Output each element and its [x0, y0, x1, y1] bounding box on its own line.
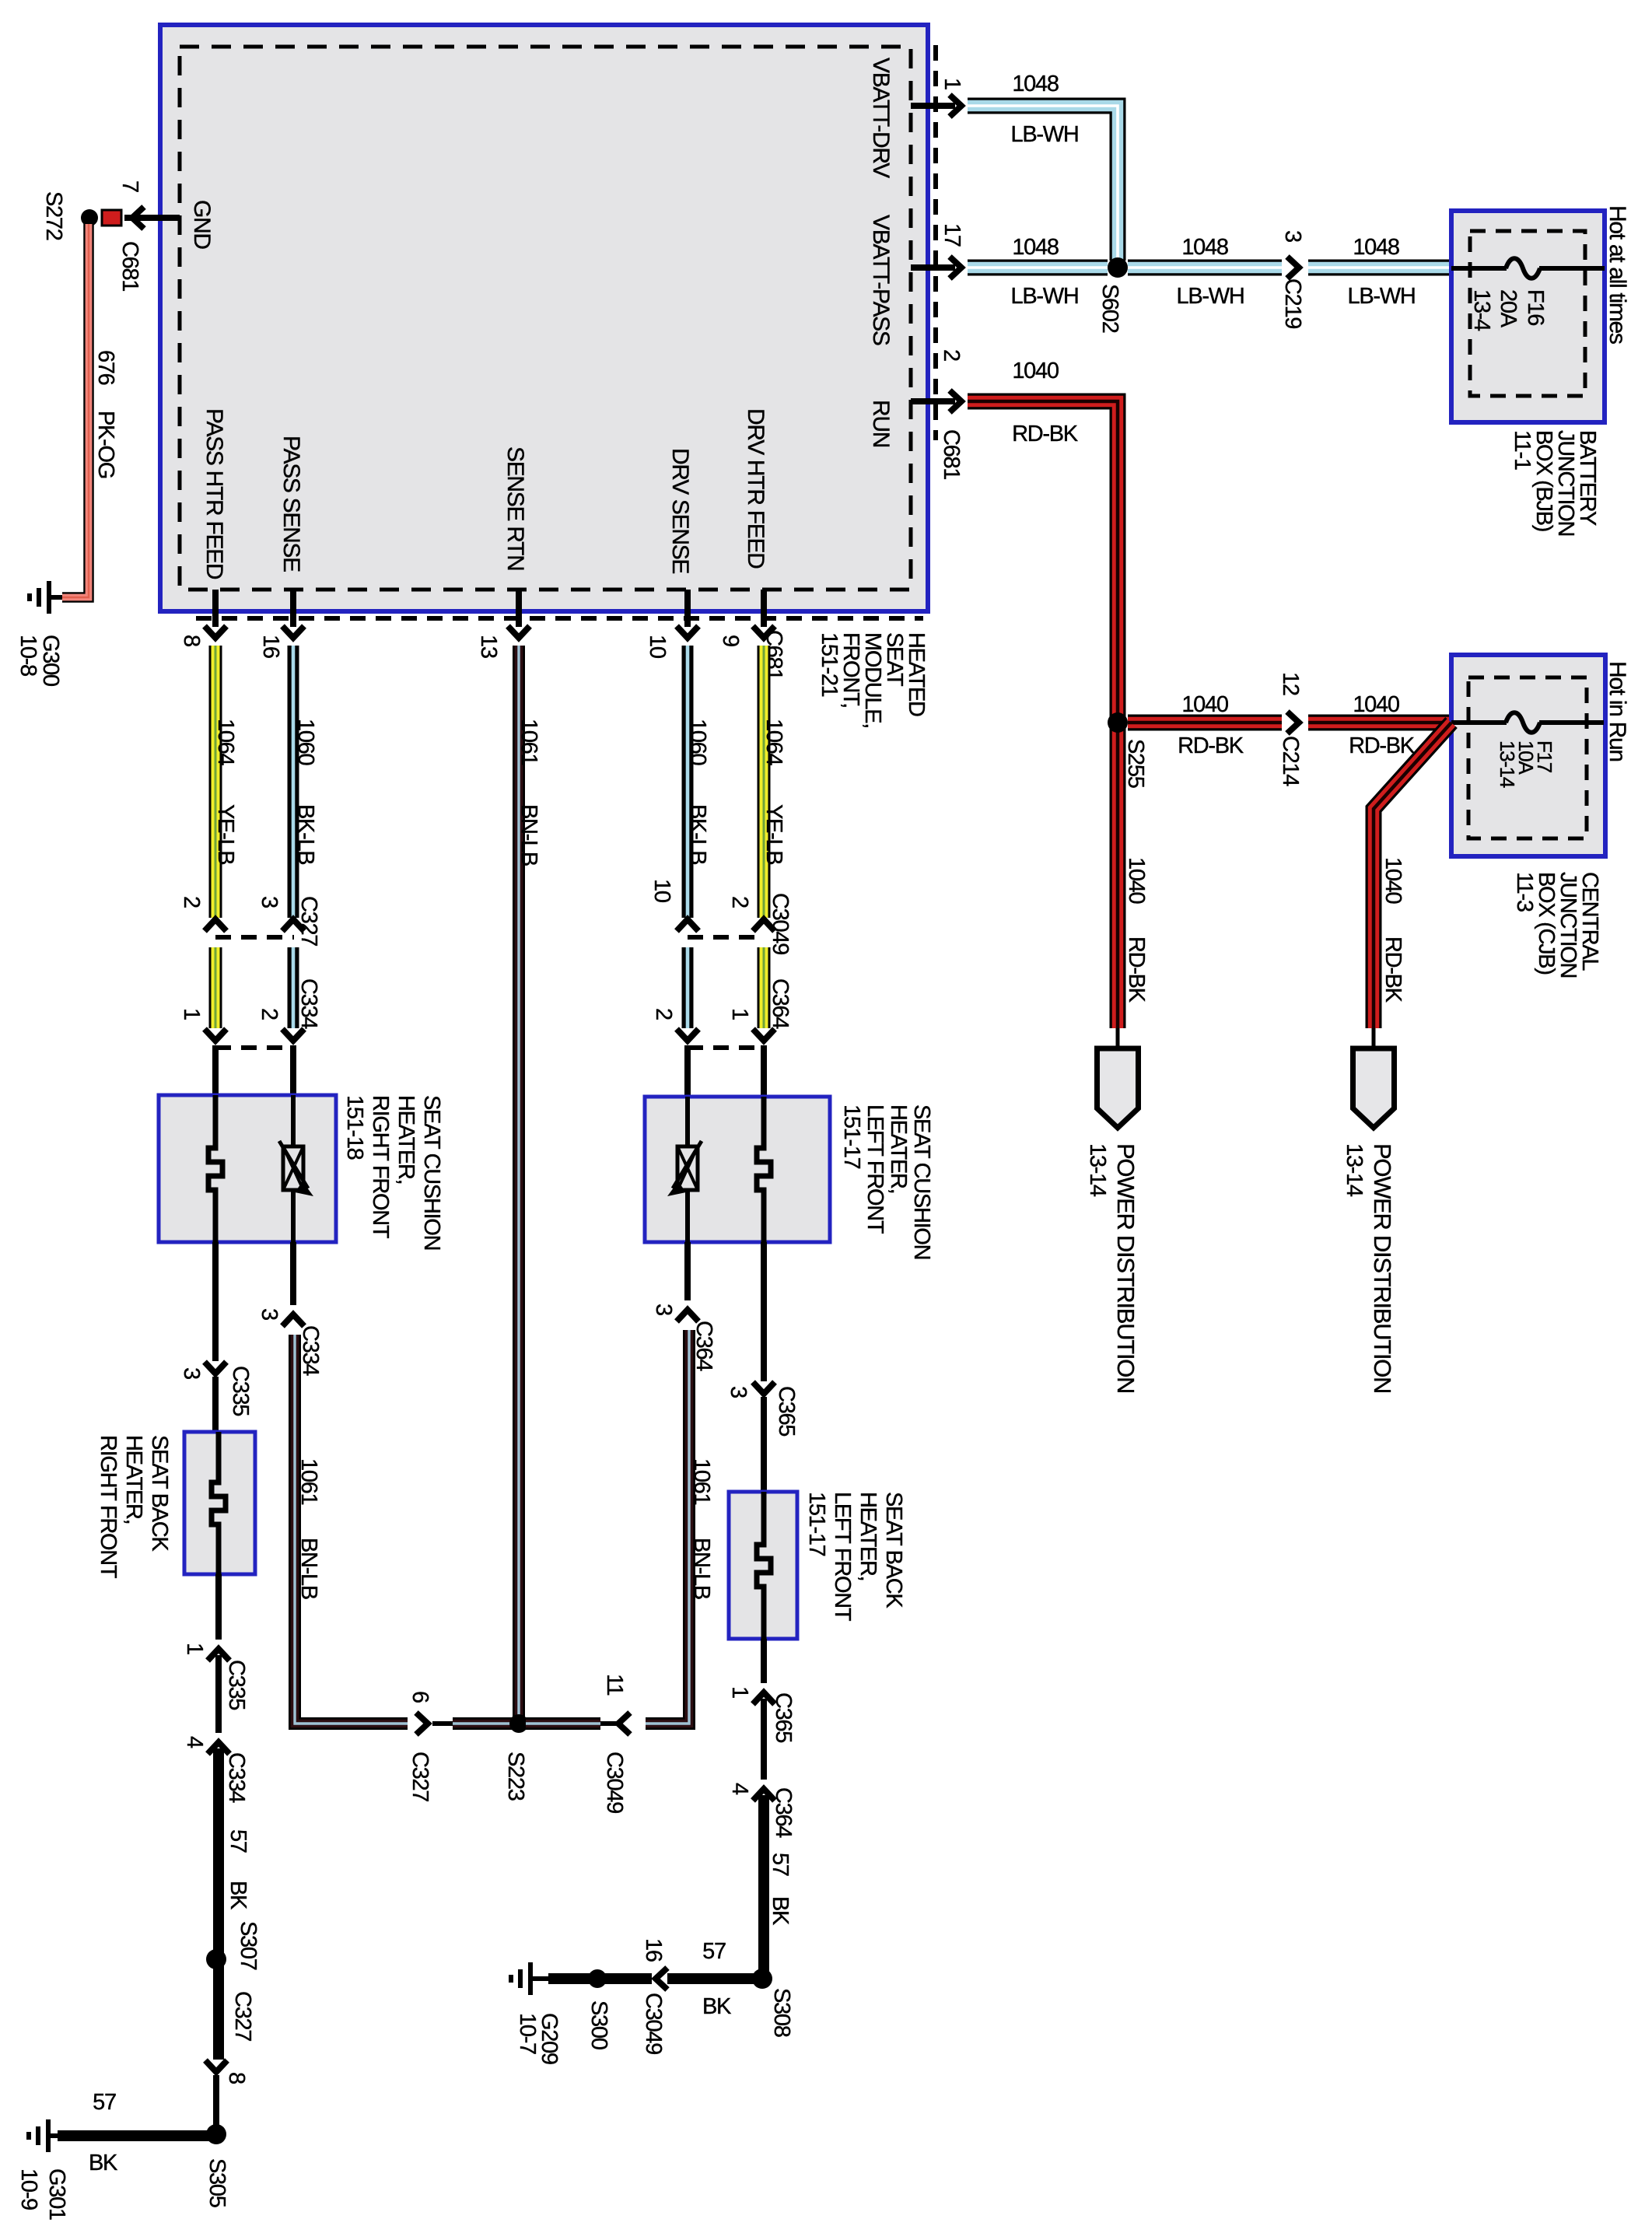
power distribution arrow 1 [1097, 1048, 1139, 1128]
svg-text:16: 16 [258, 635, 283, 658]
heated seat module inner dashed boundary [180, 47, 911, 590]
wire to seat cushion heater RF sensor [290, 1045, 296, 1097]
svg-text:C3049: C3049 [641, 1993, 666, 2054]
connector C327 arrow (pin8) [205, 2060, 227, 2072]
svg-text:LEFT FRONT: LEFT FRONT [863, 1104, 887, 1234]
wire 1048 LB-WH (seg2) [1128, 260, 1282, 276]
svg-text:2: 2 [257, 1008, 282, 1020]
wire C327-6 to S223 [432, 1721, 453, 1726]
central junction box body [1451, 655, 1605, 856]
svg-text:RD-BK: RD-BK [1012, 422, 1079, 446]
svg-text:57: 57 [226, 1829, 250, 1853]
svg-text:C335: C335 [228, 1366, 253, 1416]
seat cushion heater LF element wire [757, 1097, 771, 1242]
splice S307 [206, 1949, 226, 1969]
wire 57 BK (C3049 to G209) [548, 1973, 652, 1984]
wire to power distribution 1 tail [1116, 1028, 1120, 1050]
wire to seat cushion heater RF [212, 1045, 219, 1097]
connector C327 arrow (pin6) [416, 1713, 428, 1734]
svg-text:3: 3 [179, 1367, 204, 1379]
svg-text:1048: 1048 [1353, 235, 1398, 260]
wire heater RF sensor to C334 [290, 1242, 296, 1305]
power distribution arrow 2 [1353, 1048, 1395, 1128]
wire 1061 BN-LB (pass sense) [295, 1335, 408, 1724]
svg-text:BN-LB: BN-LB [296, 1538, 321, 1599]
svg-text:1: 1 [727, 1008, 752, 1020]
svg-text:PASS HTR FEED: PASS HTR FEED [201, 408, 227, 579]
svg-text:C365: C365 [774, 1386, 799, 1436]
wire 1060 BK-LB (drv sense seg1) [682, 646, 694, 918]
connector C334 arrow (w1) [205, 1029, 226, 1041]
connector C327 arrow (w2) [282, 919, 304, 931]
svg-text:S308: S308 [769, 1988, 794, 2037]
wire 1060 BK-LB (pass sense seg2) [288, 947, 299, 1028]
svg-text:1040: 1040 [1012, 359, 1058, 383]
svg-text:3: 3 [726, 1386, 751, 1398]
wire 1060 BK-LB (drv sense seg2) [682, 947, 694, 1028]
connector C681 dashed line (right pins) [933, 45, 938, 440]
svg-text:1061: 1061 [296, 1458, 321, 1504]
svg-text:SEAT CUSHION: SEAT CUSHION [419, 1095, 444, 1250]
wire 57 BK (S308 to C3049) [667, 1973, 758, 1984]
svg-text:G301: G301 [44, 2168, 69, 2220]
wire 1061 BN-LB (drv sense) [646, 1330, 689, 1724]
svg-text:3: 3 [257, 1308, 282, 1320]
pin 16 stub wire [290, 590, 296, 627]
fuse F16 wire [1451, 266, 1507, 271]
svg-text:57: 57 [702, 1939, 726, 1964]
svg-text:DRV HTR FEED: DRV HTR FEED [743, 408, 768, 569]
svg-text:S307: S307 [236, 1921, 261, 1970]
seat cushion heater LF sensor wire [685, 1097, 690, 1146]
connector C681 dashed line (bottom pins) [196, 616, 923, 621]
connector C364 arrow (w4) [677, 1029, 698, 1041]
svg-text:8: 8 [179, 635, 204, 646]
svg-text:SENSE RTN: SENSE RTN [502, 446, 528, 570]
svg-text:11-1: 11-1 [1510, 430, 1535, 470]
svg-text:2: 2 [727, 896, 752, 908]
svg-text:1: 1 [727, 1686, 752, 1698]
wire 1048 LB-WH (seg3) [1308, 260, 1451, 276]
splice S305 [206, 2124, 226, 2144]
connector C3049 dashed line [688, 935, 764, 940]
wire seat back heater RF down [215, 1574, 222, 1640]
wire heater LF to C365 [761, 1242, 767, 1381]
connector C219 arrow [1287, 257, 1299, 278]
wire 1064 YE-LB (drv feed seg2) [758, 947, 771, 1028]
wire 1060 BK-LB (pass sense seg1) [288, 646, 299, 918]
pin 8 stub wire [212, 590, 219, 627]
seat cushion heater LF sensor [677, 1146, 698, 1190]
svg-text:11-3: 11-3 [1512, 872, 1537, 912]
wire to seat cushion heater LF sensor [684, 1045, 691, 1098]
pin 2 connector arrow [950, 390, 961, 412]
svg-text:1040: 1040 [1353, 692, 1398, 717]
svg-text:10: 10 [649, 879, 674, 902]
svg-text:YE-LB: YE-LB [213, 804, 238, 864]
connector C334 arrow (pin4) [208, 1742, 229, 1754]
battery junction box body [1451, 211, 1605, 422]
pin 10 connector arrow [677, 626, 698, 638]
svg-text:13-4: 13-4 [1469, 289, 1494, 331]
svg-text:13-14: 13-14 [1085, 1143, 1110, 1197]
wire C365 to C364 [761, 1699, 767, 1780]
svg-text:HEATER,: HEATER, [394, 1095, 418, 1184]
svg-text:C335: C335 [224, 1660, 249, 1710]
svg-text:BN-LB: BN-LB [689, 1538, 714, 1599]
svg-text:G300: G300 [38, 635, 63, 686]
pin 10 stub wire [684, 590, 691, 627]
wire C3049-11 to S223 [600, 1721, 617, 1726]
splice S300 [588, 1969, 607, 1988]
svg-text:6: 6 [408, 1691, 432, 1703]
svg-text:BK-LB: BK-LB [685, 804, 710, 864]
svg-text:2: 2 [179, 896, 204, 908]
splice S223 [509, 1714, 528, 1733]
pin 13 connector arrow [508, 626, 530, 638]
connector C334 arrow (w2) [282, 1029, 304, 1041]
seat back heater LF element [757, 1492, 771, 1639]
ground G301 stem [48, 2133, 58, 2138]
svg-text:12: 12 [1278, 672, 1303, 695]
svg-text:HEATER,: HEATER, [856, 1492, 880, 1580]
svg-text:LB-WH: LB-WH [1177, 284, 1244, 309]
splice S272 [81, 209, 98, 226]
seat cushion heater LF body [645, 1097, 830, 1242]
wire C681 red stub [102, 210, 121, 226]
wire C365 to seat back heater LF [761, 1397, 767, 1493]
connector C3049 arrow (w4) [677, 919, 698, 931]
svg-text:LB-WH: LB-WH [1011, 122, 1079, 147]
svg-text:10: 10 [645, 635, 670, 658]
svg-text:S300: S300 [586, 2000, 611, 2049]
pin 1 stub wire [911, 103, 955, 109]
fuse F16 dashed boundary [1470, 231, 1585, 396]
svg-text:S255: S255 [1123, 739, 1148, 788]
pin 16 connector arrow [282, 626, 304, 638]
connector C334 dashed line [215, 1045, 294, 1050]
svg-text:PK-OG: PK-OG [93, 411, 118, 478]
pin GND stub wire [124, 215, 180, 221]
svg-text:1060: 1060 [685, 719, 710, 765]
svg-text:BN-LB: BN-LB [516, 804, 541, 866]
svg-text:POWER DISTRIBUTION: POWER DISTRIBUTION [1112, 1143, 1139, 1393]
svg-text:C327: C327 [230, 1991, 255, 2041]
svg-text:151-18: 151-18 [342, 1095, 367, 1160]
svg-text:F16: F16 [1523, 289, 1548, 325]
svg-text:C3049: C3049 [602, 1752, 627, 1813]
svg-text:C3049: C3049 [768, 893, 793, 954]
svg-text:RUN: RUN [868, 400, 894, 447]
connector C364 arrow (w5) [753, 1029, 775, 1041]
wire 1040 RD-BK (branch seg2) [1308, 715, 1451, 731]
wire C335 to C334 [215, 1655, 222, 1733]
pin GND connector arrow [132, 207, 144, 229]
wire 1048 LB-WH (VBATT-DRV) [968, 106, 1118, 261]
seat cushion heater RF sensor [283, 1146, 303, 1190]
pin 9 stub wire [761, 590, 767, 627]
svg-text:S272: S272 [41, 191, 66, 240]
wire 1061 BN-LB (to S223 left) [453, 1717, 512, 1730]
svg-text:1064: 1064 [761, 719, 786, 765]
svg-text:2: 2 [939, 349, 964, 361]
svg-text:S602: S602 [1097, 284, 1122, 333]
connector C364 arrow (pin3) [677, 1310, 698, 1321]
fuse F17 wire [1451, 720, 1507, 725]
svg-text:LEFT FRONT: LEFT FRONT [830, 1492, 855, 1622]
pin 2 stub wire [911, 398, 955, 404]
svg-text:7: 7 [117, 180, 142, 192]
svg-text:C214: C214 [1278, 736, 1303, 786]
svg-text:SEAT BACK: SEAT BACK [881, 1492, 906, 1608]
ground G209 symbol [528, 1962, 533, 1995]
fuse F17 dashed boundary [1468, 677, 1587, 838]
pin 13 stub wire [516, 590, 522, 627]
svg-text:C364: C364 [768, 978, 793, 1029]
connector C334 arrow (pin3) [282, 1314, 304, 1326]
svg-text:16: 16 [641, 1938, 666, 1962]
wire to power distribution 2 tail [1372, 1028, 1376, 1050]
svg-text:C334: C334 [224, 1752, 249, 1803]
svg-text:PASS SENSE: PASS SENSE [278, 436, 304, 572]
splice S308 [752, 1969, 772, 1989]
svg-text:HEATER,: HEATER, [886, 1104, 911, 1193]
connector C3049 arrow (pin16) [656, 1968, 667, 1990]
svg-text:9: 9 [718, 635, 743, 646]
pin 17 stub wire [911, 264, 955, 271]
pin 17 connector arrow [950, 257, 961, 278]
svg-text:1061: 1061 [689, 1458, 714, 1504]
seat cushion heater RF sensor wire [291, 1095, 296, 1146]
connector C327 dashed line [215, 935, 294, 940]
svg-text:4: 4 [727, 1783, 752, 1795]
svg-text:SEAT BACK: SEAT BACK [147, 1435, 172, 1552]
svg-text:C334: C334 [296, 978, 321, 1029]
connector C365 arrow (pin3) [753, 1382, 775, 1394]
svg-text:BK: BK [702, 1994, 732, 2019]
svg-text:10-9: 10-9 [16, 2168, 41, 2210]
wire heater LF sensor to C364 [684, 1242, 691, 1300]
svg-text:4: 4 [182, 1736, 207, 1748]
svg-text:57: 57 [93, 2090, 116, 2115]
wire seat back heater LF down [761, 1639, 767, 1683]
wire 1064 YE-LB (pass feed seg1) [209, 646, 222, 918]
svg-text:1048: 1048 [1012, 72, 1058, 96]
wire 57 BK (driver) [758, 1795, 769, 1979]
splice S255 [1108, 712, 1128, 733]
svg-text:1040: 1040 [1124, 857, 1149, 903]
connector C364 arrow (pin4) [753, 1789, 775, 1801]
svg-text:3: 3 [651, 1304, 676, 1315]
heated seat module U1 body [160, 25, 928, 611]
svg-text:RIGHT FRONT: RIGHT FRONT [96, 1435, 121, 1579]
wire heater RF to C335 [212, 1242, 219, 1361]
svg-text:10-8: 10-8 [16, 635, 40, 676]
connector C214 arrow [1287, 712, 1299, 733]
svg-text:10-7: 10-7 [515, 2013, 540, 2054]
svg-text:3: 3 [257, 896, 282, 908]
wire 1040 RD-BK (branch seg1) [1128, 715, 1282, 731]
svg-text:C327: C327 [408, 1752, 432, 1801]
splice S602 [1108, 257, 1128, 278]
svg-text:RD-BK: RD-BK [1349, 733, 1416, 758]
wire C335 to seat back heater RF [212, 1377, 219, 1433]
svg-text:VBATT-DRV: VBATT-DRV [868, 58, 894, 178]
svg-text:1061: 1061 [516, 719, 541, 765]
svg-text:1048: 1048 [1012, 235, 1058, 260]
svg-text:151-21: 151-21 [817, 632, 842, 697]
svg-text:C681: C681 [117, 241, 142, 291]
svg-text:20A: 20A [1496, 289, 1521, 328]
svg-text:3: 3 [1280, 230, 1305, 242]
wire 676 PK-OG [62, 224, 89, 597]
svg-text:POWER DISTRIBUTION: POWER DISTRIBUTION [1369, 1143, 1396, 1393]
ground G301 symbol [46, 2119, 51, 2152]
wire 1064 YE-LB (drv feed seg1) [758, 646, 771, 918]
svg-text:DRV SENSE: DRV SENSE [667, 448, 693, 573]
svg-text:RIGHT FRONT: RIGHT FRONT [368, 1095, 393, 1239]
wire C327-8 to S305 [213, 2075, 219, 2130]
connector C335 arrow (pin1) [208, 1649, 229, 1661]
wire 1040 RD-BK (CJB feed) [1374, 723, 1451, 1028]
svg-text:BK: BK [768, 1896, 793, 1926]
svg-text:57: 57 [768, 1853, 793, 1876]
svg-text:8: 8 [224, 2072, 249, 2084]
wire 57 BK to G301 [58, 2130, 212, 2141]
svg-text:13-14: 13-14 [1496, 740, 1519, 788]
wire 1048 LB-WH (VBATT-PASS seg1) [968, 260, 1108, 276]
svg-text:LB-WH: LB-WH [1348, 284, 1416, 309]
connector C3049 arrow (w5) [753, 919, 775, 931]
svg-text:676: 676 [93, 350, 118, 385]
wire to seat cushion heater LF [761, 1045, 767, 1098]
ground G209 stem [530, 1976, 548, 1981]
seat cushion heater RF element wire [208, 1095, 222, 1242]
svg-text:C327: C327 [296, 896, 321, 946]
svg-text:13: 13 [476, 635, 501, 658]
connector C365 arrow (pin1) [753, 1692, 775, 1704]
svg-text:1: 1 [940, 78, 964, 89]
svg-text:Hot at all times: Hot at all times [1605, 205, 1630, 344]
svg-text:S223: S223 [503, 1752, 528, 1801]
seat back heater RF element [212, 1432, 226, 1574]
svg-text:RD-BK: RD-BK [1381, 936, 1405, 1003]
svg-text:C219: C219 [1280, 278, 1305, 328]
svg-text:1048: 1048 [1181, 235, 1227, 260]
connector C327 arrow (w1) [205, 919, 226, 931]
svg-text:YE-LB: YE-LB [761, 804, 786, 864]
connector C364 dashed line [688, 1045, 764, 1050]
svg-text:151-17: 151-17 [804, 1492, 829, 1556]
svg-text:LB-WH: LB-WH [1011, 284, 1079, 309]
svg-text:C681: C681 [939, 429, 964, 479]
seat back heater RF body [184, 1432, 255, 1574]
ground G300 stem [50, 595, 62, 600]
svg-text:BK: BK [226, 1881, 250, 1910]
svg-text:HEATER,: HEATER, [121, 1435, 146, 1524]
svg-text:C365: C365 [771, 1692, 796, 1742]
pin 9 connector arrow [753, 626, 775, 638]
svg-text:151-17: 151-17 [839, 1104, 864, 1169]
svg-text:GND: GND [189, 200, 215, 249]
pin 8 connector arrow [205, 626, 226, 638]
svg-text:VBATT-PASS: VBATT-PASS [868, 215, 894, 345]
svg-text:13-14: 13-14 [1342, 1143, 1367, 1197]
wire 1040 RD-BK (RUN) [968, 401, 1118, 1028]
svg-text:C334: C334 [298, 1325, 323, 1376]
svg-text:1060: 1060 [293, 719, 318, 765]
svg-text:BK: BK [89, 2151, 118, 2175]
wire 1064 YE-LB (pass feed seg2) [209, 947, 222, 1028]
svg-text:SEAT CUSHION: SEAT CUSHION [909, 1104, 934, 1259]
svg-text:1: 1 [179, 1008, 204, 1020]
seat back heater LF body [729, 1492, 797, 1639]
svg-text:RD-BK: RD-BK [1124, 936, 1149, 1003]
connector C335 arrow (pin3) [205, 1362, 226, 1374]
svg-text:1040: 1040 [1381, 857, 1405, 903]
svg-text:1: 1 [182, 1643, 207, 1654]
fuse F17 element [1506, 712, 1540, 733]
wire 1061 BN-LB (to S223 right) [526, 1717, 600, 1730]
svg-text:2: 2 [651, 1008, 676, 1020]
svg-text:C364: C364 [771, 1787, 796, 1838]
connector C3049 arrow (pin11) [618, 1713, 630, 1734]
svg-text:1064: 1064 [213, 719, 238, 765]
svg-text:BK-LB: BK-LB [293, 804, 318, 864]
pin 1 connector arrow [950, 95, 961, 117]
svg-text:1040: 1040 [1181, 692, 1227, 717]
ground G300 symbol [47, 581, 51, 614]
seat cushion heater RF body [159, 1095, 336, 1242]
svg-text:17: 17 [940, 223, 964, 247]
svg-text:Hot in Run: Hot in Run [1605, 661, 1630, 761]
svg-text:11: 11 [602, 1674, 627, 1696]
svg-text:S305: S305 [205, 2158, 229, 2207]
wire 1061 BN-LB (sense rtn) [513, 646, 525, 1717]
fuse F16 element [1506, 258, 1540, 278]
wire 57 BK (passenger) [213, 1748, 224, 2060]
svg-text:RD-BK: RD-BK [1178, 733, 1244, 758]
